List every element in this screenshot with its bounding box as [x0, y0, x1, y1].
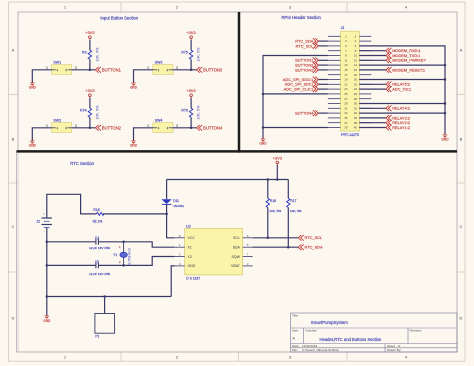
port RELAY5:2 — [386, 81, 410, 87]
svg-text:VCC: VCC — [188, 236, 196, 240]
wire port ADC_SPI_SDO:1 to J1 pin 19 — [318, 79, 328, 81]
svg-text:32.768 KHZ: 32.768 KHZ — [127, 248, 131, 266]
power +3V3 for SW1 — [85, 30, 94, 40]
ground for SW4 — [130, 140, 138, 148]
junction crystal bottom — [122, 264, 125, 267]
svg-text:R17: R17 — [290, 199, 296, 203]
junction left rail bottom — [46, 295, 49, 298]
wire J1 pin 10 to port MODEM_TXD:1 — [359, 55, 386, 57]
svg-text:16: 16 — [354, 68, 358, 72]
svg-text:MODEM_PWRKEY: MODEM_PWRKEY — [392, 58, 426, 63]
svg-text:R16: R16 — [270, 199, 276, 203]
svg-text:SDA: SDA — [233, 246, 241, 250]
wire J1 pin 16 to port MODEM_RESET:1 — [359, 69, 386, 71]
port BUTTON2 — [95, 125, 121, 131]
wire SW2 pin2 to port BUTTON2 — [72, 127, 96, 129]
wire C5 to U3 X2 with jog — [99, 257, 175, 266]
svg-text:34: 34 — [354, 111, 358, 115]
junction VCC net / R18 — [165, 213, 168, 216]
junction crystal top — [122, 241, 125, 244]
ground for SW1 — [29, 82, 37, 90]
svg-text:1N4001: 1N4001 — [173, 204, 184, 208]
port MODEM_TXD:1 — [386, 53, 420, 59]
switch SW1 — [46, 60, 77, 74]
svg-text:B: B — [460, 136, 463, 141]
svg-text:RELAY1:2: RELAY1:2 — [392, 125, 410, 130]
port BUTTON3 — [295, 67, 318, 73]
wire SW4 pin2 to port BUTTON4 — [173, 127, 197, 129]
capacitor C5 — [89, 260, 111, 276]
wire J1 pin 22 to port RELAY5:2 — [359, 83, 386, 85]
svg-text:10K, 5%: 10K, 5% — [197, 47, 201, 62]
svg-text:+3V3: +3V3 — [85, 88, 94, 93]
wire battery negative down left rail — [46, 228, 48, 297]
wire port RTC_SCL to J1 pin 5 — [318, 45, 328, 47]
svg-text:Size:: Size: — [292, 329, 299, 333]
frame row labels — [12, 47, 463, 320]
svg-text:SCL: SCL — [233, 236, 240, 240]
svg-text:+3V3: +3V3 — [85, 30, 94, 35]
wire +3V3 to resistor R3 — [89, 40, 91, 50]
svg-text:14: 14 — [354, 63, 358, 67]
svg-text:25: 25 — [344, 92, 348, 96]
svg-text:R74: R74 — [80, 108, 86, 112]
power +3V3 RTC — [273, 155, 282, 165]
ground symbol right rail — [441, 134, 449, 142]
svg-text:Title:: Title: — [292, 314, 299, 318]
svg-text:12: 12 — [354, 58, 358, 62]
svg-text:+3V3: +3V3 — [186, 30, 195, 35]
svg-text:SQW: SQW — [232, 255, 241, 259]
svg-text:10K, 5%: 10K, 5% — [290, 209, 302, 213]
svg-text:24: 24 — [354, 87, 358, 91]
svg-text:BUTTON4: BUTTON4 — [295, 111, 314, 116]
svg-text:RELAY4:2: RELAY4:2 — [392, 106, 410, 111]
svg-text:GND: GND — [130, 85, 138, 89]
svg-text:BUTTON2: BUTTON2 — [102, 125, 122, 130]
svg-text:X2: X2 — [188, 255, 192, 259]
wire rail to diode D11 — [166, 180, 168, 200]
port BUTTON1 — [295, 57, 318, 63]
frame column labels — [64, 5, 408, 360]
svg-text:SW4: SW4 — [155, 118, 163, 122]
wire left rail down to ground — [46, 297, 48, 317]
svg-text:C: C — [12, 224, 15, 229]
wire J1 pin 8 to port MODEM_RXD:1 — [359, 50, 386, 52]
connector J1 pin stubs and pin numbers — [328, 36, 371, 127]
svg-text:GND: GND — [188, 264, 196, 268]
wire P1 stub — [104, 297, 106, 314]
svg-text:SW1: SW1 — [53, 60, 61, 64]
wire J1 pin 36 to port RELAY3:2 — [359, 117, 386, 119]
IC U3 pins — [175, 238, 253, 266]
svg-text:39: 39 — [344, 126, 348, 130]
wire port RTC_SDA to J1 pin 3 — [318, 40, 328, 42]
svg-text:15: 15 — [344, 68, 348, 72]
power +3V3 for SW4 — [186, 88, 195, 98]
resistor R76 — [181, 105, 200, 120]
svg-text:Header,RTC and Buttons Section: Header,RTC and Buttons Section — [320, 337, 383, 342]
power +3V3 for SW2 — [85, 88, 94, 98]
svg-text:17: 17 — [344, 73, 348, 77]
wire J1 pin 24 to port ADC_CS:1 — [359, 88, 386, 90]
svg-text:ADC_SPI_CLK:1: ADC_SPI_CLK:1 — [284, 87, 314, 92]
svg-text:Number:: Number: — [306, 329, 318, 333]
junction bottom rail P1 — [103, 295, 106, 298]
svg-text:20: 20 — [354, 78, 358, 82]
svg-text:Y1: Y1 — [113, 253, 117, 257]
resistor R74 — [80, 105, 99, 120]
ground rail right of J1 (pins 6,14,20,30,34) — [359, 46, 445, 135]
wire resistor R3 to node — [89, 59, 91, 69]
svg-text:BUTTON3: BUTTON3 — [295, 67, 313, 72]
port MODEM_RXD:1 — [386, 48, 421, 54]
svg-text:SW3: SW3 — [155, 60, 163, 64]
svg-text:32: 32 — [354, 106, 358, 110]
svg-text:GND: GND — [130, 143, 138, 147]
svg-text:26: 26 — [354, 92, 358, 96]
port RTC_SDA — [295, 38, 318, 44]
junction node SW1/R3 — [89, 69, 92, 72]
switch SW2 — [46, 118, 77, 132]
svg-text:RTC Section: RTC Section — [70, 161, 94, 166]
diode D11 1N4001 — [161, 199, 184, 208]
ground symbol RTC — [43, 315, 51, 323]
thick divider line above RTC section — [17, 150, 458, 153]
port BUTTON4 — [197, 125, 223, 131]
port MODEM_PWRKEY — [386, 57, 427, 63]
port RELAY2:2 — [386, 120, 410, 126]
wire J1 pin 40 to port RELAY1:2 — [359, 127, 386, 129]
port BUTTON1 — [95, 67, 121, 73]
svg-text:18: 18 — [354, 73, 358, 77]
connector J1 body — [340, 31, 359, 131]
svg-text:VBAT: VBAT — [231, 264, 241, 268]
port RTC_SCL — [298, 235, 323, 241]
port BUTTON4 — [295, 110, 318, 116]
svg-text:33: 33 — [344, 111, 348, 115]
port RELAY4:2 — [386, 105, 410, 111]
svg-text:GND: GND — [43, 319, 51, 323]
svg-text:A: A — [12, 47, 15, 52]
wire +3V3 to resistor R75 — [190, 40, 192, 50]
svg-text:13: 13 — [344, 63, 348, 67]
svg-text:GND: GND — [259, 142, 267, 146]
connector P1 — [95, 314, 115, 339]
svg-text:GND: GND — [441, 138, 449, 142]
svg-text:D S 1337: D S 1337 — [186, 277, 200, 281]
ground for SW3 — [130, 82, 138, 90]
svg-text:10K, 5%: 10K, 5% — [95, 47, 99, 62]
IC U3 DS1337 body — [185, 229, 243, 275]
junction node SW3/R75 — [190, 69, 193, 72]
capacitor C4 — [89, 236, 111, 250]
junction left rail C5 — [46, 264, 49, 267]
svg-text:SW2: SW2 — [53, 118, 61, 122]
svg-text:R3: R3 — [82, 50, 87, 54]
svg-text:RTC_SCL: RTC_SCL — [296, 43, 314, 48]
wire +3V3 to resistor R74 — [89, 98, 91, 108]
wire bottom rail up to U3 GND — [171, 266, 175, 297]
port RTC_SDA — [298, 244, 323, 250]
ground rail left of J1 (pins 9,25,39) — [263, 56, 328, 140]
svg-text:P1: P1 — [95, 335, 99, 339]
resistor R16 — [266, 180, 281, 238]
wire SW2 pin1 to ground — [32, 128, 51, 141]
switch SW3 — [147, 60, 178, 74]
svg-text:U3: U3 — [186, 224, 191, 228]
junction R17 SDA — [287, 246, 290, 249]
wire SW4 pin1 to ground — [134, 128, 153, 141]
wire port BUTTON2 to J1 pin 13 — [318, 64, 328, 66]
svg-text:40: 40 — [354, 126, 358, 130]
wire port ADC_SPI_CLK:1 to J1 pin 23 — [318, 88, 328, 90]
port BUTTON3 — [197, 67, 223, 73]
svg-text:C: C — [460, 224, 463, 229]
junction node SW2/R74 — [89, 127, 92, 130]
ground symbol left rail — [259, 138, 267, 146]
port ADC_SPI_SDI:1 — [285, 81, 319, 87]
wire U3 SDA to port — [253, 246, 299, 248]
svg-text:23: 23 — [344, 87, 348, 91]
svg-text:35: 35 — [344, 116, 348, 120]
wire pull-up rail horizontal — [167, 179, 289, 181]
battery J2 — [36, 212, 51, 234]
frame column ticks top — [120, 2, 122, 12]
wire port BUTTON3 to J1 pin 15 — [318, 69, 328, 71]
wire SW3 pin2 to port BUTTON3 — [173, 69, 197, 71]
svg-text:R76: R76 — [181, 108, 187, 112]
wire resistor R76 to node — [190, 117, 192, 127]
svg-text:BUTTON3: BUTTON3 — [203, 67, 223, 72]
svg-text:RTC_SCL: RTC_SCL — [305, 235, 323, 240]
title block labels — [292, 314, 422, 353]
title block border — [291, 313, 458, 352]
junction R16 SCL — [267, 237, 270, 240]
resistor R3 — [82, 47, 99, 62]
port RELAY1:2 — [386, 125, 410, 131]
svg-text:31: 31 — [344, 106, 348, 110]
svg-text:36: 36 — [354, 116, 358, 120]
wire R18 to VCC net — [103, 213, 167, 215]
svg-text:+3V3: +3V3 — [186, 88, 195, 93]
svg-text:+3V3: +3V3 — [273, 155, 282, 160]
svg-text:ADC_CS:1: ADC_CS:1 — [392, 87, 411, 92]
wire port BUTTON4 to J1 pin 33 — [318, 112, 328, 114]
svg-text:R18: R18 — [93, 208, 99, 212]
svg-text:PRT-14275: PRT-14275 — [341, 133, 359, 137]
port BUTTON2 — [295, 62, 318, 68]
frame row ticks right — [457, 94, 465, 96]
port RELAY3:2 — [386, 115, 410, 121]
junction on left ground rail pin25 — [262, 93, 265, 96]
svg-text:10: 10 — [354, 54, 358, 58]
junction node SW4/R76 — [190, 127, 193, 130]
svg-text:MODEM_RESET:1: MODEM_RESET:1 — [392, 67, 425, 72]
port MODEM_RESET:1 — [386, 67, 425, 73]
port ADC_SPI_CLK:1 — [284, 86, 319, 92]
wire C5 row left — [47, 264, 96, 266]
wire J1 pin 38 to port RELAY2:2 — [359, 122, 386, 124]
junction left rail C4 — [46, 241, 49, 244]
svg-text:12 pF 16V X5R: 12 pF 16V X5R — [89, 272, 111, 276]
svg-text:D: D — [460, 315, 463, 320]
svg-text:Drawn By:: Drawn By: — [387, 348, 401, 352]
svg-text:SmartPumpSystem: SmartPumpSystem — [311, 320, 348, 325]
port RTC_SCL — [296, 43, 319, 49]
svg-text:D: D — [12, 315, 15, 320]
svg-text:File:: File: — [292, 348, 298, 352]
svg-text:GND: GND — [29, 143, 37, 147]
wire SW1 pin1 to ground — [32, 70, 51, 83]
junction pull-up rail R16 — [267, 178, 270, 181]
junctions on right ground rail — [444, 64, 447, 115]
wire C4 to U3 X1 with jog — [99, 242, 175, 247]
svg-text:30: 30 — [354, 102, 358, 106]
ground for SW2 — [29, 140, 37, 148]
svg-text:10K, 5%: 10K, 5% — [269, 209, 281, 213]
svg-text:B: B — [12, 136, 15, 141]
svg-text:GND: GND — [29, 85, 37, 89]
wire port BUTTON1 to J1 pin 11 — [318, 59, 328, 61]
power +3V3 for SW3 — [186, 30, 195, 40]
svg-text:37: 37 — [344, 121, 348, 125]
wire U3 SCL to port — [253, 237, 299, 239]
svg-text:J1: J1 — [341, 26, 345, 30]
wire SW1 pin2 to port BUTTON1 — [72, 69, 96, 71]
junction on left ground rail pin39 — [262, 126, 265, 129]
svg-text:27: 27 — [344, 97, 348, 101]
svg-text:0E 1%: 0E 1% — [93, 220, 103, 224]
section box RPI4 Header Section — [239, 12, 457, 151]
svg-text:Revision:: Revision: — [410, 329, 423, 333]
junction pull-up rail power — [276, 178, 279, 181]
svg-text:C:\Users\..\Sheet1.SchDoc: C:\Users\..\Sheet1.SchDoc — [302, 348, 339, 352]
crystal Y1 32.768 KHZ — [113, 242, 131, 266]
wire bottom ground rail — [47, 296, 171, 298]
svg-text:21: 21 — [344, 82, 348, 86]
thick divider line between top sections — [238, 12, 241, 153]
svg-text:-: - — [44, 229, 45, 233]
svg-text:D11: D11 — [173, 199, 179, 203]
wire C4 row left — [47, 241, 96, 243]
svg-text:12 pF 16V X5R: 12 pF 16V X5R — [89, 246, 111, 250]
wire battery positive to R18 — [47, 194, 97, 218]
svg-text:Input Button Section: Input Button Section — [100, 16, 138, 21]
svg-text:19: 19 — [344, 78, 348, 82]
svg-text:RTC_SDA: RTC_SDA — [305, 245, 323, 250]
wire diode D11 to U3 VCC — [167, 204, 175, 237]
svg-text:BUTTON1: BUTTON1 — [102, 67, 122, 72]
svg-text:+: + — [43, 212, 45, 216]
svg-text:J2: J2 — [36, 220, 40, 224]
svg-text:28: 28 — [354, 97, 358, 101]
wire +3V3 to resistor R76 — [190, 98, 192, 108]
resistor R17 — [287, 180, 302, 248]
wire SW3 pin1 to ground — [134, 70, 153, 83]
section box RTC Section — [17, 151, 458, 352]
wire resistor R74 to node — [89, 117, 91, 127]
resistor R18 — [93, 208, 104, 223]
svg-text:11: 11 — [344, 58, 347, 62]
svg-text:X1: X1 — [188, 246, 192, 250]
svg-text:10K, 5%: 10K, 5% — [197, 105, 201, 120]
wire +3V3 down to pull-up rail — [276, 165, 278, 180]
wire resistor R75 to node — [190, 59, 192, 69]
svg-text:R75: R75 — [181, 50, 187, 54]
svg-text:10K, 5%: 10K, 5% — [95, 105, 99, 120]
wire J1 pin 12 to port MODEM_PWRKEY — [359, 59, 386, 61]
section box Input Button Section — [18, 12, 239, 151]
svg-text:C4: C4 — [95, 236, 99, 240]
svg-text:RPI4 Header Section: RPI4 Header Section — [282, 15, 322, 20]
port ADC_SPI_SDO:1 — [283, 77, 319, 83]
svg-text:C5: C5 — [95, 260, 99, 264]
port ADC_CS:1 — [386, 86, 411, 92]
wire J1 pin 32 to port RELAY4:2 — [359, 107, 386, 109]
svg-text:A: A — [460, 47, 463, 52]
frame column ticks bottom — [120, 352, 122, 361]
wire port ADC_SPI_SDI:1 to J1 pin 21 — [318, 83, 328, 85]
svg-text:38: 38 — [354, 121, 358, 125]
svg-text:22: 22 — [354, 82, 358, 86]
svg-text:29: 29 — [344, 102, 348, 106]
frame row ticks left — [9, 94, 19, 96]
switch SW4 — [147, 118, 178, 132]
svg-text:BUTTON4: BUTTON4 — [203, 125, 223, 130]
resistor R75 — [181, 47, 200, 62]
